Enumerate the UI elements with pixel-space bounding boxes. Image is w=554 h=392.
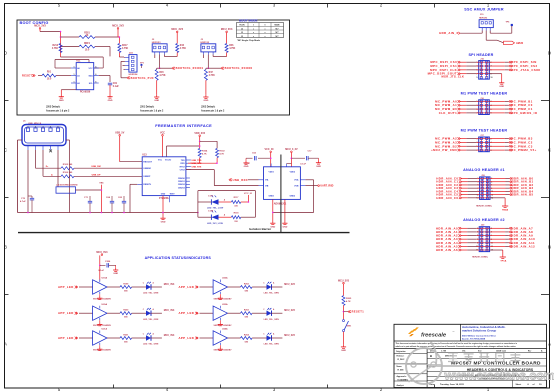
wire xyxy=(490,245,506,247)
svg-text:x: x xyxy=(253,32,254,34)
resistor R217 4.75K xyxy=(118,44,121,53)
svg-text:VCC: VCC xyxy=(88,68,93,70)
wire xyxy=(205,80,207,95)
junction xyxy=(197,212,199,214)
port UNB_RXD to isolator xyxy=(248,179,259,181)
port HDR_AIN_B3 xyxy=(510,187,513,189)
ground xyxy=(245,158,247,161)
svg-text:BOOT MODE: BOOT MODE xyxy=(239,19,258,23)
svg-text:CAGE Code: CAGE Code xyxy=(496,350,506,353)
wire xyxy=(460,138,467,140)
ground xyxy=(219,322,221,324)
port HDR_AIN_A8 xyxy=(509,231,512,233)
svg-text:whole or in part without the e: whole or in part without the express wri… xyxy=(396,345,517,348)
junction xyxy=(216,162,218,164)
svg-text:HDR_AIN_B5: HDR_AIN_B5 xyxy=(512,193,534,197)
resistor R45 4.75K xyxy=(155,70,158,81)
ferrite L26 600OHM xyxy=(56,187,76,193)
resistor R46 4.75K xyxy=(225,44,228,53)
svg-text:MCU_3V3: MCU_3V3 xyxy=(221,28,233,31)
svg-text:VDD2: VDD2 xyxy=(290,171,296,173)
node BOOTCFG_RCON1 xyxy=(160,67,172,69)
U11 pins xyxy=(71,67,76,69)
ground xyxy=(272,221,274,223)
svg-text:4: 4 xyxy=(50,125,51,128)
svg-text:HDR_AIN_C6: HDR_AIN_C6 xyxy=(436,196,458,200)
svg-text:LED_YEL_GRN: LED_YEL_GRN xyxy=(264,319,280,321)
svg-text:U13: U13 xyxy=(142,154,147,157)
svg-text:D-: D- xyxy=(51,174,53,176)
buffer U19A SN74LVC1G34 xyxy=(93,280,107,294)
svg-text:UNB_TXD: UNB_TXD xyxy=(192,160,202,162)
svg-text:MCU_3V3: MCU_3V3 xyxy=(164,335,175,337)
svg-text:BOOTCFG_PU0: BOOTCFG_PU0 xyxy=(131,77,154,80)
wire xyxy=(489,65,505,67)
svg-text:MCU_3V3: MCU_3V3 xyxy=(96,251,108,254)
wire xyxy=(118,53,120,58)
wire xyxy=(489,149,505,151)
resistor R200 680 xyxy=(120,312,132,315)
svg-text:R45: R45 xyxy=(159,71,164,74)
svg-text:BOOTCFG_RCON1: BOOTCFG_RCON1 xyxy=(176,67,204,70)
ground xyxy=(501,81,503,83)
port MC_PWM_C2 xyxy=(509,141,512,143)
connector J18 through wires xyxy=(480,178,490,180)
svg-text:APP_LED_1: APP_LED_1 xyxy=(58,285,78,289)
buffer U20A SN74LVC1G34 xyxy=(93,306,107,320)
svg-text:www.elecfans.com: www.elecfans.com xyxy=(444,369,554,383)
svg-text:RESET1: RESET1 xyxy=(22,75,34,78)
wire xyxy=(132,337,146,339)
resistor R216 4.75K xyxy=(59,44,62,53)
wire xyxy=(27,150,29,213)
svg-text:A: A xyxy=(548,342,551,347)
wire xyxy=(61,36,80,38)
port HDR_AIN_B2 xyxy=(510,184,513,186)
buffer ground pin xyxy=(219,343,221,345)
svg-text:GND: GND xyxy=(203,100,208,102)
wire xyxy=(60,90,62,95)
svg-text:C117: C117 xyxy=(208,195,214,197)
capacitor C65 xyxy=(123,199,125,201)
svg-text:SW1: SW1 xyxy=(347,326,353,328)
U14 top pins xyxy=(270,164,272,167)
svg-text:R47: R47 xyxy=(209,71,214,74)
wire xyxy=(461,181,468,183)
resistor R102 4.7K xyxy=(216,148,219,157)
svg-text:4.7K: 4.7K xyxy=(346,300,351,303)
wire xyxy=(460,108,467,110)
wire xyxy=(489,100,505,102)
svg-text:VOA: VOA xyxy=(294,179,299,182)
buffer power pin xyxy=(219,331,221,334)
wire xyxy=(186,169,214,171)
svg-text:Chk: Chk xyxy=(462,351,465,353)
junction xyxy=(248,201,250,203)
ground xyxy=(60,95,62,97)
connector J15 through wires xyxy=(479,61,490,63)
U14 right pins xyxy=(300,179,305,181)
U14 bottom pins xyxy=(272,199,274,221)
svg-text:C: C xyxy=(4,148,7,153)
svg-text:LED_YEL_GRN: LED_YEL_GRN xyxy=(264,293,280,295)
node BOOTCFG_RCON0 xyxy=(208,67,221,69)
wire xyxy=(107,337,120,339)
svg-text:NC*: NC* xyxy=(275,36,278,38)
port MC_PWM_B3 xyxy=(509,137,512,139)
wire xyxy=(490,181,506,183)
svg-text:NC*: NC* xyxy=(275,28,278,30)
wire xyxy=(228,286,241,288)
wire xyxy=(156,80,158,95)
port MPC_DSPI_SIN xyxy=(509,61,512,63)
svg-text:VCCIO: VCCIO xyxy=(165,159,172,161)
resistor R281 1K xyxy=(79,36,95,39)
svg-text:6: 6 xyxy=(95,67,96,69)
svg-text:APP_LED_6: APP_LED_6 xyxy=(179,336,199,340)
svg-text:APP_LED_3: APP_LED_3 xyxy=(58,336,78,340)
resistor R104 4.7K xyxy=(198,148,201,157)
svg-text:4.75K: 4.75K xyxy=(122,47,128,50)
svg-text:News:: News: xyxy=(397,366,403,368)
svg-text:4.75K: 4.75K xyxy=(52,47,58,50)
svg-text:VCC_IO: VCC_IO xyxy=(265,148,274,151)
port HDR_AIN_A11 xyxy=(509,242,512,244)
ground xyxy=(99,347,101,349)
svg-text:LED_YEL_GRN: LED_YEL_GRN xyxy=(143,344,159,346)
ground xyxy=(99,322,101,324)
jumper header J24 HDR1X4 xyxy=(129,55,137,73)
port HDR_AIN_A7 xyxy=(509,227,512,229)
wire xyxy=(200,337,214,339)
wire xyxy=(271,337,282,339)
ground xyxy=(219,347,221,349)
svg-text:A: A xyxy=(4,342,7,347)
svg-text:REGOUT: REGOUT xyxy=(143,162,152,164)
svg-text:GND: GND xyxy=(244,166,249,168)
svg-text:J2: J2 xyxy=(241,28,243,30)
svg-text:x: x xyxy=(265,36,266,38)
capacitor C64 xyxy=(111,199,113,201)
wire xyxy=(198,201,212,203)
wire xyxy=(490,242,506,244)
wire xyxy=(271,286,282,288)
svg-text:SDA: SDA xyxy=(88,74,93,77)
wire xyxy=(270,153,272,167)
svg-text:RNF1: RNF1 xyxy=(84,43,91,45)
svg-text:K ADAMEC: K ADAMEC xyxy=(398,378,409,381)
svg-text:RESET1: RESET1 xyxy=(352,310,365,314)
svg-text:0.1uF: 0.1uF xyxy=(300,164,306,166)
svg-text:R102: R102 xyxy=(219,150,225,152)
wire xyxy=(200,286,214,288)
svg-text:GND: GND xyxy=(113,273,118,275)
U13 bottom pins xyxy=(162,196,164,216)
svg-text:+MC2_PW_CM0: +MC2_PW_CM0 xyxy=(431,148,457,152)
svg-text:RESET#: RESET# xyxy=(143,184,152,186)
wire xyxy=(226,33,228,44)
wire xyxy=(216,158,218,164)
wire xyxy=(461,187,468,189)
ground xyxy=(115,268,117,270)
svg-text:FT232RL: FT232RL xyxy=(159,197,170,200)
svg-text:R117: R117 xyxy=(234,197,240,199)
svg-text:UNB_RXD: UNB_RXD xyxy=(233,178,248,182)
wire xyxy=(166,146,168,157)
wire xyxy=(490,249,503,251)
svg-text:x: x xyxy=(265,32,266,34)
wire xyxy=(461,197,468,199)
svg-text:MCU_3V3: MCU_3V3 xyxy=(338,279,350,282)
buffer ground pin xyxy=(99,318,101,320)
svg-text:HDR1X4: HDR1X4 xyxy=(129,73,138,76)
svg-text:R217: R217 xyxy=(122,45,128,47)
wire xyxy=(460,104,467,106)
wire xyxy=(241,201,249,203)
wire xyxy=(490,184,506,186)
svg-text:10.0: 10.0 xyxy=(85,50,90,52)
svg-text:ANALOG HEADER #2: ANALOG HEADER #2 xyxy=(463,218,505,222)
ground xyxy=(205,95,207,97)
U13 left pins xyxy=(137,183,142,185)
svg-text:CTS#: CTS# xyxy=(180,170,186,172)
wire xyxy=(490,235,506,237)
op IC U11 PCA9536 body xyxy=(76,63,94,90)
wire xyxy=(489,145,505,147)
capacitor C70 4.7uF xyxy=(31,196,33,198)
wire xyxy=(214,185,258,187)
svg-text:HDR_AIN_X: HDR_AIN_X xyxy=(439,31,458,35)
svg-text:GND: GND xyxy=(108,100,113,102)
wire xyxy=(99,255,101,280)
wire routing to IC xyxy=(61,56,104,58)
border zone ticks top/bottom xyxy=(113,4,115,8)
wire xyxy=(490,194,506,196)
wire xyxy=(490,231,506,233)
svg-text:MCU_3V3: MCU_3V3 xyxy=(284,335,295,337)
junction xyxy=(159,67,161,69)
IC U14 ADUM1201 body xyxy=(264,167,301,200)
svg-text:J201 Default:: J201 Default: xyxy=(140,106,155,109)
buffer U21A SN74LVC1G34 xyxy=(93,331,107,345)
svg-text:2: 2 xyxy=(35,126,36,128)
svg-text:GND1: GND1 xyxy=(269,195,275,197)
svg-text:R202: R202 xyxy=(244,283,250,285)
svg-text:APP_LED_5: APP_LED_5 xyxy=(179,311,199,315)
wire xyxy=(461,184,468,186)
svg-text:PCA9536: PCA9536 xyxy=(80,91,91,94)
svg-text:UNB_RTS: UNB_RTS xyxy=(192,166,202,168)
wire shield xyxy=(66,139,70,141)
wire xyxy=(460,141,467,143)
svg-text:LED_YEL_GRN: LED_YEL_GRN xyxy=(143,293,159,295)
U14 left pins xyxy=(259,179,264,181)
svg-text:10.0: 10.0 xyxy=(47,79,52,81)
wire xyxy=(74,175,142,177)
LED LED_YEL_GRN xyxy=(146,311,151,316)
capacitor C17 0.1uF xyxy=(306,156,308,160)
svg-text:MODE: MODE xyxy=(274,25,280,27)
svg-text:U23A: U23A xyxy=(222,303,228,306)
svg-text:x: x xyxy=(253,28,254,30)
capacitor C63 0.1uF xyxy=(258,157,271,159)
svg-text:R51: R51 xyxy=(47,71,52,73)
svg-text:6501 William Cannon Drive West: 6501 William Cannon Drive West xyxy=(462,334,496,337)
wire xyxy=(460,73,467,75)
ground xyxy=(99,296,101,298)
wire xyxy=(489,61,505,63)
wire xyxy=(481,31,483,34)
svg-text:APP_LED_4: APP_LED_4 xyxy=(179,285,199,289)
pointer AMUX xyxy=(504,41,515,44)
resistor R44 4.75K xyxy=(176,44,179,53)
svg-text:NC*: NC* xyxy=(275,32,278,34)
svg-text:HDR2X7-100MIL: HDR2X7-100MIL xyxy=(476,206,493,208)
wire xyxy=(228,337,241,339)
svg-text:APPLICATION STATUS/INDICATORS: APPLICATION STATUS/INDICATORS xyxy=(145,256,212,260)
svg-text:Analyst:: Analyst: xyxy=(397,384,405,387)
wire xyxy=(271,312,282,314)
wire xyxy=(460,69,467,71)
svg-text:Isolation Barrier: Isolation Barrier xyxy=(249,227,272,231)
svg-text:U22A: U22A xyxy=(222,277,228,280)
wire xyxy=(489,138,505,140)
svg-text:CLK_OUT1: CLK_OUT1 xyxy=(439,111,457,115)
svg-text:GND: GND xyxy=(59,100,64,102)
buffer power pin xyxy=(99,306,101,309)
junction xyxy=(60,31,62,33)
port MPC_EMIOS_IO xyxy=(509,112,512,114)
wire xyxy=(343,284,345,296)
svg-text:4.75K: 4.75K xyxy=(229,47,235,50)
wire xyxy=(109,264,116,266)
svg-text:VCC_IO: VCC_IO xyxy=(244,193,252,195)
junction xyxy=(27,212,29,214)
wire xyxy=(252,337,266,339)
svg-text:B: B xyxy=(430,354,432,358)
wire ground rail xyxy=(18,212,198,214)
wire xyxy=(199,137,201,149)
watermark logo circle xyxy=(406,348,442,384)
buffer power pin xyxy=(219,306,221,309)
svg-text:HDR_AIN_A12: HDR_AIN_A12 xyxy=(511,244,535,248)
wire xyxy=(57,150,59,187)
svg-text:VDD1: VDD1 xyxy=(269,171,275,173)
LED LED_YEL_GRN xyxy=(146,284,151,289)
svg-text:R118: R118 xyxy=(234,212,240,214)
buffer ground pin xyxy=(99,343,101,345)
buffer U24A SN74LVC1G34 xyxy=(213,331,227,345)
svg-text:R203: R203 xyxy=(244,310,250,312)
svg-text:CBUS3: CBUS3 xyxy=(178,187,186,189)
svg-text:VIA: VIA xyxy=(265,179,269,182)
svg-text:MCU_3V3: MCU_3V3 xyxy=(164,284,175,286)
LED LED_YEL_GRN xyxy=(146,335,151,340)
resistor R205 4.7K xyxy=(342,296,345,306)
svg-text:MPC_JTAG_CS88: MPC_JTAG_CS88 xyxy=(511,68,540,72)
wire xyxy=(100,264,106,266)
port MC_PWM_C3 xyxy=(509,145,512,147)
wire xyxy=(485,31,487,41)
LED LED_YEL_GRN xyxy=(267,311,272,316)
capacitor C61 0.1uF xyxy=(108,82,112,84)
resistor R117 330 xyxy=(231,201,240,204)
wire xyxy=(228,312,241,314)
wire xyxy=(489,104,505,106)
svg-text:Sheet: Sheet xyxy=(516,383,522,386)
junction xyxy=(119,36,121,38)
svg-text:UART_RXD: UART_RXD xyxy=(320,185,333,188)
svg-text:U11: U11 xyxy=(76,60,81,63)
title block frame xyxy=(394,324,547,387)
svg-text:MCU_3V3: MCU_3V3 xyxy=(171,28,183,31)
svg-text:CBUS2: CBUS2 xyxy=(178,184,186,186)
junction xyxy=(272,212,274,214)
ground xyxy=(156,95,158,97)
ground xyxy=(318,158,320,160)
node BOOTCFG_PU0 xyxy=(127,77,130,80)
port MC_PWM_C1 xyxy=(509,108,512,110)
wire xyxy=(343,305,345,319)
ground xyxy=(109,95,111,97)
junction xyxy=(99,265,101,267)
svg-text:LED_3V3_LOW: LED_3V3_LOW xyxy=(207,223,224,225)
port MPC_JTAG_CS88 xyxy=(509,69,512,71)
svg-text:HDR_AIN_A6: HDR_AIN_A6 xyxy=(436,248,458,252)
buffer ground pin xyxy=(219,318,221,320)
wire xyxy=(460,149,467,151)
wire xyxy=(490,227,506,229)
ground TBDA xyxy=(502,205,508,207)
wire xyxy=(132,286,146,288)
svg-text:R204: R204 xyxy=(244,333,250,336)
wire xyxy=(460,100,467,102)
watermark hanzi xyxy=(448,353,458,362)
svg-text:R106 249: R106 249 xyxy=(63,171,73,174)
svg-text:of: of xyxy=(533,384,535,386)
svg-text:GND: GND xyxy=(154,100,159,102)
wire xyxy=(489,73,501,75)
wire xyxy=(461,242,468,244)
svg-text:R105 249: R105 249 xyxy=(63,163,73,166)
svg-text:J202 Default:: J202 Default: xyxy=(201,106,216,109)
buffer ground pin xyxy=(99,292,101,294)
wire xyxy=(489,31,491,34)
svg-text:BOOTCFG_RCON0: BOOTCFG_RCON0 xyxy=(225,67,253,70)
svg-text:MCU_3_3V: MCU_3_3V xyxy=(285,148,298,151)
wire xyxy=(241,216,256,218)
wire xyxy=(461,235,468,237)
wire xyxy=(490,187,506,189)
svg-text:D: D xyxy=(548,51,551,56)
resistor R202 680 xyxy=(241,286,253,289)
svg-text:0: 0 xyxy=(265,25,266,27)
svg-text:USBDP: USBDP xyxy=(143,176,151,178)
svg-text:SSC AMUX JUMPER: SSC AMUX JUMPER xyxy=(464,8,504,12)
buffer ground pin xyxy=(219,292,221,294)
wire xyxy=(461,227,468,229)
svg-text:GND: GND xyxy=(161,193,166,195)
svg-text:MCU_3V3: MCU_3V3 xyxy=(284,284,295,286)
wire xyxy=(99,75,110,77)
svg-text:U20A: U20A xyxy=(102,303,108,306)
svg-text:4.75K: 4.75K xyxy=(180,47,186,50)
wire xyxy=(489,69,505,71)
jumper J2 HDR1X3 (first) xyxy=(152,44,167,52)
svg-text:C206: C206 xyxy=(105,261,111,263)
wire xyxy=(489,141,505,143)
svg-text:C: C xyxy=(548,148,551,153)
